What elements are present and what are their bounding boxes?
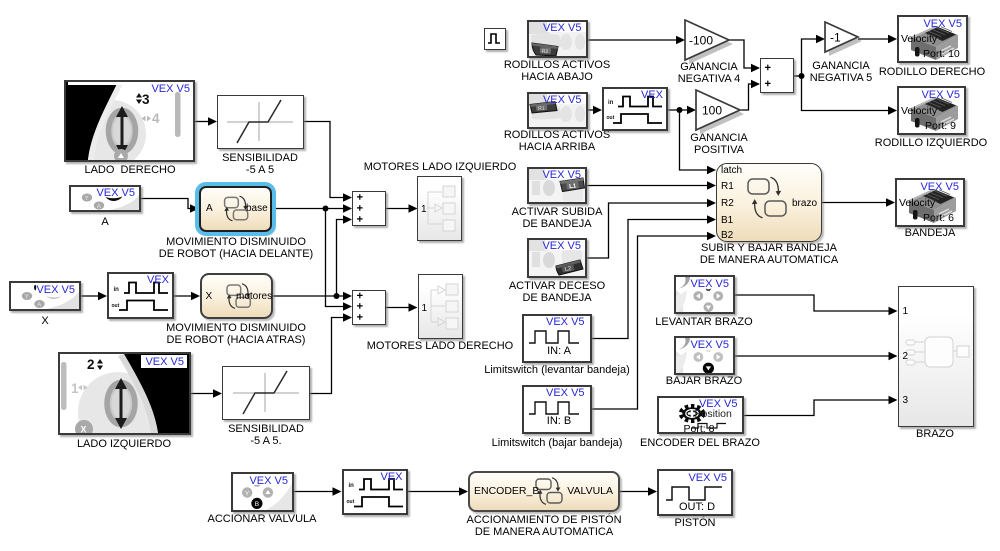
block BRAZO subsystem (898, 286, 974, 427)
wire latch1 to chart atras (174, 295, 193, 297)
label Limitswitch (bajar bandeja) (492, 437, 623, 449)
wire ACTIVAR DECESO to chart R2 (587, 203, 709, 258)
wire latch3 to chart accionamiento (408, 491, 462, 493)
label ACTIVAR SUBIDA DE BANDEJA (512, 206, 603, 231)
block RODILLO IZQUIERDO motor (897, 86, 966, 135)
label ACCIONAR VALVULA (207, 513, 316, 525)
block RODILLOS ACTIVOS HACIA ABAJO image (527, 20, 588, 58)
label MOVIMIENTO DISMINUIDO DE ROBOT (HACIA DELANTE) (159, 236, 313, 261)
label GANANCIA NEGATIVA 5 (810, 60, 873, 85)
svg-text:3: 3 (142, 92, 150, 107)
chart MOVIMIENTO DISMINUIDO (HACIA ATRAS) (200, 273, 273, 319)
wire sum3 to junction (794, 75, 802, 77)
wire LEVANTAR BRAZO to BRAZO in1 (735, 295, 891, 311)
block RODILLO DERECHO motor (897, 15, 968, 63)
label SENSIBILIDAD -5 A 5. (228, 423, 304, 448)
label BRAZO (916, 428, 954, 440)
wire A to chart delante (141, 199, 192, 209)
label LADO DERECHO (84, 164, 175, 176)
wire X to latch1 (81, 295, 100, 297)
block LADO IZQUIERDO joystick image (58, 352, 191, 435)
svg-text:B: B (255, 501, 259, 508)
label Limitswitch (levantar bandeja) (484, 364, 630, 376)
wire chart brazo out to BANDEJA (822, 202, 888, 204)
wire RODILLOS ABAJO to gain -100 (587, 39, 678, 41)
svg-text:100: 100 (702, 104, 722, 118)
block latch2 in/out (602, 87, 668, 131)
svg-text:out: out (112, 303, 120, 309)
block ACTIVAR DECESO DE BANDEJA image (527, 238, 587, 278)
block RODILLOS ACTIVOS HACIA ARRIBA image (527, 92, 588, 129)
label RODILLO IZQUIERDO (875, 137, 987, 149)
block sum1 (352, 191, 386, 226)
label BANDEJA (905, 227, 956, 239)
svg-text:A: A (97, 204, 101, 210)
chart SUBIR Y BAJAR BANDEJA (716, 163, 822, 242)
label SENSIBILIDAD -5 A 5 (222, 152, 298, 177)
block pulse generator (484, 28, 506, 50)
gain GANANCIA POSITIVA (694, 89, 746, 135)
wire SENSIBILIDAD to sum1 in1 (304, 122, 345, 198)
label MOTORES LADO DERECHO (367, 340, 514, 352)
label X (41, 315, 48, 327)
block SENSIBILIDAD2 dead zone (222, 366, 310, 420)
block Limitswitch bajar (522, 385, 592, 434)
wire motores out to sum2 in1 (273, 295, 345, 297)
label A (101, 216, 108, 228)
wire gain -1 to RODILLO DERECHO (858, 38, 890, 40)
wire BAJAR BRAZO to BRAZO in2 (735, 355, 891, 357)
label ENCODER DEL BRAZO (640, 437, 760, 449)
svg-text:-1: -1 (830, 31, 841, 45)
block A button image (69, 185, 141, 212)
wire sum2 to subsys2 (386, 307, 410, 309)
svg-text:A: A (37, 302, 41, 308)
block BAJAR BRAZO image (674, 336, 735, 375)
svg-text:Y: Y (25, 294, 29, 300)
block latch1 in/out (107, 272, 174, 319)
wire sum1 to subsys1 (386, 208, 410, 210)
svg-text:Y: Y (245, 490, 250, 497)
arrowheads (208, 117, 217, 126)
svg-text:R1: R1 (537, 105, 544, 112)
label SUBIR Y BAJAR BANDEJA DE MANERA AUTOMATICA (700, 242, 838, 267)
block subsystem MOTORES LADO DERECHO (418, 274, 463, 339)
wire latch2 to gain 100 (668, 109, 689, 111)
block LADO DERECHO joystick image (64, 80, 195, 162)
label GANANCIA POSITIVA (690, 132, 747, 157)
wire junction down to RODILLO IZQUIERDO (802, 76, 891, 111)
svg-text:X: X (81, 425, 87, 434)
wire limitswitch B to chart B2 (592, 236, 709, 409)
block ACCIONAR VALVULA image (231, 472, 294, 512)
block PISTON (657, 469, 733, 516)
chart ACCIONAMIENTO DE PISTON (468, 471, 620, 512)
label RODILLOS ACTIVOS HACIA ARRIBA (504, 129, 610, 154)
block ENCODER DEL BRAZO (657, 396, 744, 434)
block sum2 (352, 290, 386, 325)
wire gain -100 to sum3 in1 (729, 40, 753, 68)
block subsystem MOTORES LADO IZQUIERDO (417, 176, 462, 241)
svg-text:4: 4 (152, 111, 160, 126)
wire SENSIBILIDAD2 to sum2 in3 (310, 318, 345, 394)
svg-text:in: in (608, 100, 614, 106)
wire junction up to gain -1 (802, 39, 819, 76)
label LADO IZQUIERDO (77, 438, 171, 450)
svg-text:in: in (348, 483, 354, 489)
svg-text:-100: -100 (689, 34, 713, 48)
block ACTIVAR SUBIDA DE BANDEJA image (527, 167, 587, 204)
block Limitswitch levantar (522, 314, 592, 363)
wire LADO DERECHO to SENSIBILIDAD (195, 121, 210, 123)
svg-text:R2: R2 (541, 49, 548, 55)
svg-text:in: in (114, 287, 120, 293)
wire gain 100 to sum3 in2 (740, 84, 753, 110)
label BAJAR BRAZO (666, 375, 742, 387)
label MOVIMIENTO DISMINUIDO DE ROBOT (HACIA ATRAS) (166, 322, 306, 347)
wire ENCODER to BRAZO in3 (744, 400, 891, 416)
gain GANANCIA NEGATIVA 4 (683, 19, 735, 65)
label MOTORES LADO IZQUIERDO (364, 161, 517, 173)
label PISTON (675, 517, 716, 529)
gain GANANCIA NEGATIVA 5 (823, 21, 865, 61)
block latch3 in/out (342, 469, 408, 515)
wire base out to sum1 in2 (272, 208, 345, 210)
label LEVANTAR BRAZO (655, 316, 752, 328)
chart MOVIMIENTO DISMINUIDO (HACIA DELANTE) selected (199, 186, 272, 232)
wire LADO IZQUIERDO to SENSIBILIDAD2 (191, 393, 215, 395)
block X button image (9, 281, 81, 311)
label ACTIVAR DECESO DE BANDEJA (509, 280, 605, 305)
block BANDEJA motor (895, 178, 965, 227)
label ACCIONAMIENTO DE PISTON DE MANERA AUTOMATICA (466, 514, 621, 539)
svg-text:Y: Y (85, 196, 89, 202)
block LEVANTAR BRAZO image (674, 275, 735, 314)
svg-text:out: out (346, 499, 354, 505)
block SENSIBILIDAD dead zone (217, 95, 304, 149)
wire chart accionamiento to PISTON (620, 491, 650, 493)
label RODILLOS ACTIVOS HACIA ABAJO (504, 59, 610, 84)
wire ACTIVAR SUBIDA to chart R1 (587, 185, 709, 187)
svg-text:1: 1 (71, 381, 79, 396)
svg-text:2: 2 (87, 357, 95, 372)
wire motores branch to sum1 in3 (337, 220, 346, 297)
wire latch2 branch to chart latch input (680, 110, 710, 170)
junction dots (323, 206, 329, 212)
wire ACCIONAR VALVULA to latch3 (294, 491, 334, 493)
wire base branch to sum2 in2 (326, 209, 346, 307)
block sum3 (760, 58, 794, 93)
wire limitswitch A to chart B1 (592, 220, 709, 339)
label RODILLO DERECHO (879, 66, 985, 78)
label GANANCIA NEGATIVA 4 (678, 61, 741, 86)
wire RODILLOS ARRIBA to latch2 (587, 109, 595, 111)
svg-text:out: out (607, 115, 615, 121)
